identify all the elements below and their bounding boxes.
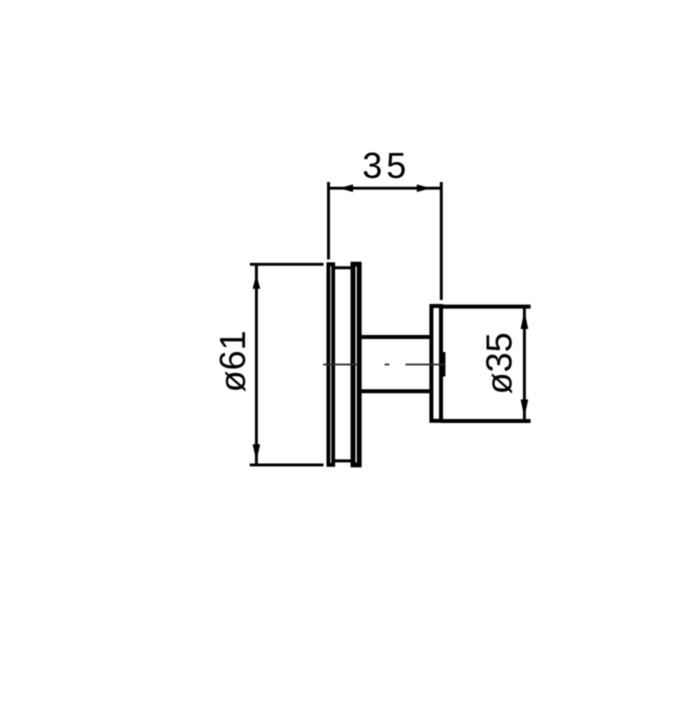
stem bottom edge <box>361 389 432 393</box>
svg-text:ø61: ø61 <box>212 330 253 392</box>
flange hub top line <box>333 266 353 269</box>
stem top edge <box>361 335 432 339</box>
dimension o61 top arrowhead <box>253 274 261 289</box>
svg-text:35: 35 <box>362 145 410 186</box>
centerline dot <box>385 364 390 366</box>
centerline dash left <box>323 364 358 366</box>
knob bore edge line <box>442 352 445 377</box>
dimension o35 top arrowhead <box>521 311 529 330</box>
knob body bottom edge <box>441 419 531 423</box>
centerline dash right <box>406 364 446 366</box>
dimension o61 top extension line <box>250 263 324 266</box>
dimension o35 line <box>523 307 526 421</box>
flange inner disc (right plate) <box>353 264 359 465</box>
dimension 35 right extension line <box>440 182 443 300</box>
dimension 35 line <box>329 187 442 190</box>
dimension o61 line <box>255 264 258 465</box>
dimension o35 bottom arrowhead <box>521 400 529 418</box>
knob rim ring <box>431 306 441 421</box>
svg-text:ø35: ø35 <box>479 332 520 394</box>
flange outer disc (left plate) <box>328 264 333 465</box>
dimension o61 bottom arrowhead <box>253 444 261 461</box>
dimension o61 bottom extension line <box>250 463 324 466</box>
knob body top edge <box>441 305 531 309</box>
dimension 35 right arrowhead <box>417 184 431 192</box>
flange hub bottom line <box>333 459 353 462</box>
dimension 35 left arrowhead <box>339 184 353 192</box>
dimension 35 left extension line <box>327 182 330 260</box>
